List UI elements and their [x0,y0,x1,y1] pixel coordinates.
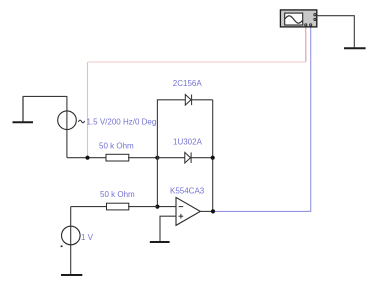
wire DC source vertical [70,207,72,275]
svg-text:1 V: 1 V [81,233,94,242]
resistor R1 50k [106,154,129,161]
wire red scope channel A vertical left [87,62,89,158]
ground top-right [344,47,366,49]
wire red scope channel A vertical right [305,28,307,62]
wire AC source vertical [66,96,68,158]
wire left vertical bus [156,100,158,207]
svg-text:1.5 V/200 Hz/0 Deg: 1.5 V/200 Hz/0 Deg [87,117,157,126]
wire red scope channel A horizontal [88,61,306,63]
svg-text:1U302A: 1U302A [173,138,203,147]
svg-text:2C156A: 2C156A [173,79,203,88]
svg-text:50 k Ohm: 50 k Ohm [100,190,135,199]
wire bottom of AC source to resistor R1 [67,157,106,159]
wire top branch right [192,99,213,101]
wire node to op-amp inverting input [157,206,176,208]
resistor R2 50k [107,203,129,210]
wire top branch left [157,99,185,101]
AC source V1 circle [58,111,77,130]
ground top-left [13,96,34,122]
ground DC source [61,274,82,276]
wire scope ground terminal [317,16,355,48]
wire right vertical bus [212,100,214,212]
wire ground to AC source top [23,95,67,97]
wire mid branch left [157,157,184,159]
node junction red wire [85,156,89,160]
node inverting input [155,205,159,209]
DC source polarity mark [61,245,63,247]
node left mid [155,156,159,160]
diode D1 2C156A [185,95,191,106]
node right mid [211,156,215,160]
oscilloscope XSC1 [280,10,316,27]
node output [211,209,215,213]
wire blue scope channel B [213,28,311,212]
wire R1 to node [128,157,157,159]
svg-text:K554CA3: K554CA3 [170,187,205,196]
DC source V2 circle [62,226,81,245]
op-amp U1 K554CA3 [176,197,200,225]
wire DC source to resistor R2 [71,206,107,208]
wire mid branch right [191,157,213,159]
svg-text:50 k Ohm: 50 k Ohm [99,142,134,151]
wire R2 to node [128,206,157,208]
AC source tilde mark [78,120,84,123]
wire non-inverting input to ground [160,216,176,241]
wire op-amp output [200,210,213,212]
diode D2 1U302A [185,152,191,163]
ground op-amp [150,241,170,243]
